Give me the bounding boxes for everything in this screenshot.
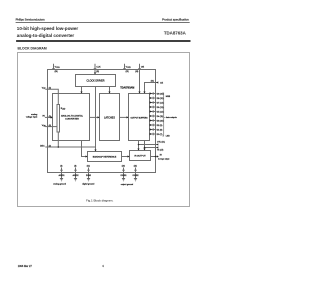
- svg-text:CLOCK DRIVER: CLOCK DRIVER: [87, 79, 105, 82]
- arrow clock into ADC: [80, 92, 82, 94]
- wire clock to ADC: [81, 87, 83, 94]
- svg-text:D1 (8): D1 (8): [157, 129, 163, 131]
- ADC box: [53, 94, 90, 141]
- arrow OTC into chip: [156, 143, 158, 145]
- wire data output D3: [150, 120, 157, 122]
- svg-text:digital ground: digital ground: [82, 183, 94, 186]
- svg-text:OGND2: OGND2: [132, 175, 138, 177]
- svg-text:1996 Mar 27: 1996 Mar 27: [18, 265, 33, 268]
- svg-text:analog ground: analog ground: [53, 184, 66, 186]
- svg-text:RB: RB: [43, 126, 45, 128]
- pin VCCA stub: [53, 64, 55, 70]
- svg-text:D2 (9): D2 (9): [157, 125, 163, 127]
- svg-text:(18): (18): [135, 71, 138, 73]
- wire data output D2: [150, 124, 157, 126]
- svg-text:D5 (12): D5 (12): [157, 111, 164, 113]
- svg-text:TS (17): TS (17): [157, 150, 164, 152]
- svg-text:Fig.1 Block diagram.: Fig.1 Block diagram.: [86, 199, 114, 203]
- wire ladder bottom drop: [57, 132, 59, 147]
- arrow data output D9: [150, 92, 152, 94]
- svg-text:D3 (10): D3 (10): [157, 120, 164, 122]
- junction dot TS: [144, 147, 146, 149]
- svg-text:CLK: CLK: [96, 67, 101, 69]
- svg-text:IR OUTPUT: IR OUTPUT: [134, 156, 146, 158]
- svg-text:TDA8763A: TDA8763A: [164, 31, 187, 36]
- svg-text:Philips Semiconductors: Philips Semiconductors: [16, 18, 46, 22]
- pin CLK stub: [94, 64, 96, 75]
- svg-text:(20): (20): [122, 166, 125, 168]
- svg-text:D9 (16): D9 (16): [157, 93, 164, 95]
- pin VCCD tick: [123, 68, 126, 70]
- svg-text:10-bit high-speed low-power: 10-bit high-speed low-power: [17, 26, 79, 31]
- ground pin AGND1 stub: [61, 168, 63, 179]
- svg-text:OE: OE: [141, 67, 145, 69]
- arrow data output D5: [150, 110, 152, 112]
- pin IN tick: [47, 116, 49, 119]
- svg-text:D0 (7): D0 (7): [157, 134, 163, 136]
- svg-text:BLOCK DIAGRAM: BLOCK DIAGRAM: [18, 47, 47, 51]
- ground symbol OGND1: [122, 178, 125, 180]
- pin DEC tick: [47, 146, 49, 149]
- svg-text:CONVERTER: CONVERTER: [65, 119, 79, 121]
- figure frame: [18, 53, 190, 207]
- wire buffers to IR output right: [144, 141, 146, 151]
- svg-text:(11): (11): [96, 71, 99, 73]
- pin OE stub to buffers: [139, 64, 141, 94]
- arrow CLK into clock driver: [94, 73, 96, 75]
- svg-text:DEC: DEC: [40, 145, 45, 147]
- svg-text:(15): (15): [126, 71, 129, 73]
- svg-text:LATCHES: LATCHES: [104, 116, 115, 119]
- pin OE tick: [138, 68, 141, 70]
- svg-text:CE: CE: [160, 82, 164, 84]
- pin VRB tick: [47, 125, 49, 128]
- svg-text:Product specification: Product specification: [162, 18, 189, 22]
- ground pin OGND1 stub: [123, 168, 125, 179]
- wire OTC input: [139, 144, 157, 146]
- ground symbol AGND2: [74, 178, 77, 180]
- wire ADC to bandgap: [82, 141, 88, 157]
- svg-text:AGND1: AGND1: [59, 174, 65, 177]
- svg-text:MSB: MSB: [166, 96, 171, 98]
- arrow IN into ADC: [51, 116, 53, 118]
- svg-text:DGND: DGND: [86, 175, 92, 177]
- junction dot IR boundary: [155, 156, 157, 158]
- header thick rule: [16, 40, 190, 42]
- arrow OE into buffers: [138, 92, 140, 94]
- arrow clock into bandgap: [94, 150, 96, 152]
- ground pin DGND stub: [88, 168, 90, 179]
- data outputs bracket: [162, 93, 165, 136]
- arrow CE into buffers: [143, 92, 145, 94]
- wire DEC: [45, 146, 95, 148]
- ground pin OGND2 stub: [135, 168, 137, 179]
- wire data output D6: [150, 106, 157, 108]
- arrow ADC to latches: [98, 116, 100, 118]
- arrow data output D2: [150, 124, 152, 126]
- junction dot IN: [51, 117, 53, 119]
- svg-text:AGND2: AGND2: [73, 174, 79, 177]
- svg-text:D6 (13): D6 (13): [157, 107, 164, 109]
- wire data output D4: [150, 115, 157, 117]
- wire data output D8: [150, 97, 157, 99]
- pin VCCA tick: [52, 68, 55, 70]
- svg-text:(22): (22): [134, 166, 137, 168]
- wire ADC to latches: [90, 116, 100, 118]
- arrow IR out: [157, 155, 159, 157]
- svg-text:output ground: output ground: [121, 183, 133, 186]
- wire IR output: [151, 156, 157, 158]
- arrow clock into latches: [108, 92, 110, 94]
- wire bandgap to IR output: [122, 156, 130, 158]
- junction dot OTC: [138, 144, 140, 146]
- wire CE to buffers: [145, 83, 158, 94]
- svg-text:OTC (21): OTC (21): [157, 142, 165, 144]
- svg-text:D4 (11): D4 (11): [157, 116, 164, 118]
- chip boundary: [48, 70, 156, 173]
- arrow TS into chip: [156, 146, 158, 148]
- IR output box: [130, 151, 151, 161]
- arrow ADC into bandgap: [86, 155, 88, 157]
- svg-text:TDA8763AM: TDA8763AM: [120, 86, 134, 89]
- resistor ladder RLAD: [57, 105, 60, 133]
- arrow data output D8: [150, 97, 152, 99]
- pin CLK tick: [94, 68, 97, 70]
- svg-text:RT: RT: [43, 88, 45, 90]
- arrow data output D4: [150, 115, 152, 117]
- latches box: [100, 94, 120, 141]
- svg-text:(26): (26): [55, 71, 58, 73]
- wire data output D0: [150, 133, 157, 135]
- wire TS input: [145, 147, 157, 149]
- wire VRB to ladder: [45, 126, 57, 128]
- svg-text:LSB: LSB: [166, 136, 170, 138]
- wire latches to buffers: [120, 116, 129, 118]
- svg-text:OGND1: OGND1: [120, 175, 126, 177]
- wire data output D9: [150, 93, 157, 95]
- arrow data output D0: [150, 133, 152, 135]
- arrow buffers right into IR output: [143, 149, 145, 151]
- ground symbol AGND1: [60, 178, 63, 180]
- header thin rule: [16, 22, 190, 24]
- pin VCCD stub: [124, 64, 126, 70]
- arrow bandgap into IR output: [128, 155, 130, 157]
- clock driver box: [76, 75, 116, 87]
- svg-text:voltage input: voltage input: [26, 115, 38, 118]
- wire data output D1: [150, 129, 157, 131]
- svg-text:(16): (16): [151, 80, 154, 82]
- svg-text:data outputs: data outputs: [166, 116, 177, 119]
- wire data output D5: [150, 111, 157, 113]
- arrow CE into chip: [156, 81, 158, 83]
- svg-text:analog-to-digital converter: analog-to-digital converter: [17, 33, 75, 38]
- wire VRT to ladder: [45, 89, 58, 104]
- svg-text:OUTPUT BUFFERS: OUTPUT BUFFERS: [130, 117, 148, 119]
- svg-text:BANDGAP REFERENCE: BANDGAP REFERENCE: [93, 155, 117, 158]
- output buffers box: [129, 94, 150, 141]
- ground pin AGND2 stub: [75, 168, 77, 179]
- wire clock to bandgap: [95, 87, 97, 152]
- arrow data output D6: [150, 106, 152, 108]
- junction dot ladder-DEC: [58, 146, 60, 148]
- arrow data output D1: [150, 128, 152, 130]
- wire buffers to IR output left: [138, 141, 140, 151]
- svg-text:D8 (15): D8 (15): [157, 98, 164, 100]
- wire clock to latches: [109, 87, 111, 94]
- wire data output D7: [150, 102, 157, 104]
- wire IN to ADC: [45, 116, 53, 118]
- svg-text:(13): (13): [87, 166, 90, 168]
- arrow latches to buffers: [127, 116, 129, 118]
- arrow data output D3: [150, 119, 152, 121]
- ground symbol OGND2: [134, 178, 137, 180]
- pin VRT tick: [47, 88, 49, 91]
- arrow data output D7: [150, 101, 152, 103]
- ground symbol DGND: [87, 178, 90, 180]
- bandgap reference box: [88, 152, 122, 162]
- svg-text:in range output: in range output: [158, 158, 170, 161]
- svg-text:D7 (14): D7 (14): [157, 102, 164, 104]
- svg-text:ANALOG-TO-DIGITAL: ANALOG-TO-DIGITAL: [61, 114, 84, 117]
- arrow buffers left into IR output: [137, 149, 139, 151]
